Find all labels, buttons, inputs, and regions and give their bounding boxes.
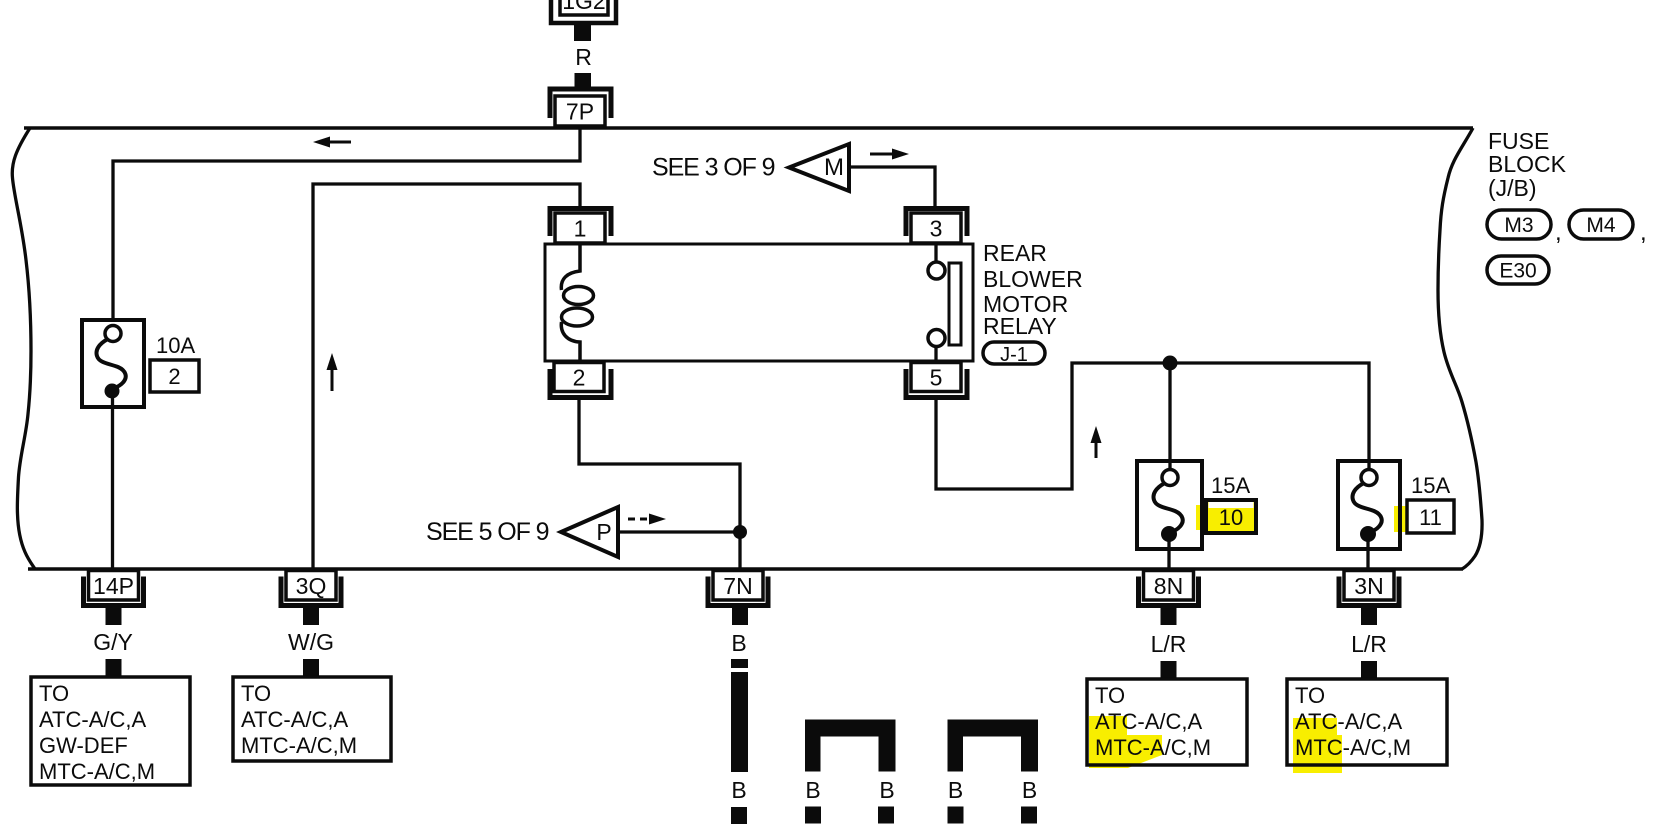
wire stub below 3Q (303, 608, 319, 625)
svg-text:B: B (1022, 777, 1037, 803)
svg-text:REAR: REAR (983, 240, 1047, 266)
wire stub below 3N (1361, 608, 1377, 625)
relay pin 2 bracket (550, 369, 611, 398)
wire color label R (575, 44, 592, 70)
ground label B (7N leg) (731, 777, 746, 803)
svg-text:TO: TO (241, 681, 271, 706)
svg-text:3Q: 3Q (296, 573, 327, 599)
current arrow right near M (870, 149, 909, 160)
svg-text:M4: M4 (1586, 214, 1615, 237)
ground label B (strap2 right) (1022, 777, 1037, 803)
svg-text:MTC-A/C,M: MTC-A/C,M (1095, 735, 1211, 760)
svg-text:7P: 7P (566, 99, 594, 125)
svg-text:11: 11 (1419, 505, 1442, 530)
destination box TO ATC GW-DEF (31, 677, 190, 785)
svg-text:B: B (805, 777, 820, 803)
wire stub above left TO box (106, 659, 122, 677)
ground stub (strap1 left) (805, 807, 821, 824)
svg-text:E30: E30 (1499, 260, 1536, 283)
svg-text:3N: 3N (1354, 573, 1383, 599)
fuse 15A no.11 element (1352, 470, 1381, 543)
wire relay pin5 to fuses (936, 363, 1369, 489)
wire color label G/Y (93, 629, 133, 655)
svg-text:TO: TO (1095, 683, 1125, 708)
connector 7N box (713, 571, 763, 601)
svg-text:B: B (948, 777, 963, 803)
label SEE 5 OF 9 (426, 518, 549, 546)
svg-text:J-1: J-1 (1000, 344, 1028, 366)
relay pin 1 box (555, 213, 605, 243)
off-page triangle P (561, 507, 618, 557)
relay grid ref J-1 (983, 342, 1045, 366)
relay pin 3 box (911, 213, 961, 243)
fuse 15A no.10 element (1153, 470, 1182, 543)
destination box TO ATC MTC (3N) with highlights (1287, 679, 1447, 773)
svg-text:L/R: L/R (1351, 631, 1387, 657)
svg-text:ATC-A/C,A: ATC-A/C,A (241, 707, 348, 732)
svg-text:(J/B): (J/B) (1488, 175, 1537, 201)
ground strap 2 (948, 720, 1039, 772)
svg-text:RELAY: RELAY (983, 313, 1057, 339)
ground stub (7N leg) (731, 807, 747, 824)
connector 7P box (555, 96, 605, 126)
svg-text:MTC-A/C,M: MTC-A/C,M (1295, 735, 1411, 760)
ground stub (strap2 right) (1021, 807, 1037, 824)
wire from 7P down into fuse block (113, 126, 580, 327)
svg-text:MTC-A/C,M: MTC-A/C,M (39, 759, 155, 784)
svg-text:R: R (575, 44, 592, 70)
destination box TO ATC MTC (8N) with highlights (1087, 679, 1247, 768)
svg-text:M: M (824, 154, 844, 181)
connector 7P bracket (550, 89, 611, 118)
wire junction to fuse 10 (1168, 363, 1171, 471)
svg-text:TO: TO (39, 681, 69, 706)
connector ref oval E30 (1487, 256, 1549, 284)
svg-text:B: B (731, 630, 746, 656)
fuse 15A no.11 box (1338, 461, 1408, 549)
wire stub above 3N TO box (1361, 661, 1377, 678)
connector 14P bracket (84, 577, 144, 606)
svg-text:GW-DEF: GW-DEF (39, 733, 128, 758)
wire fuse 10 to 8N (1167, 540, 1170, 569)
svg-text:1G2: 1G2 (562, 0, 605, 14)
svg-text:M3: M3 (1504, 214, 1533, 237)
destination box TO ATC MTC (3Q) (233, 677, 391, 761)
svg-text:L/R: L/R (1151, 631, 1187, 657)
highlighted fuse number box 10 (1206, 500, 1256, 533)
wire stub to 7P (575, 73, 592, 88)
relay pin 5 box (911, 363, 961, 392)
wire fuse 2 to 14P (111, 396, 114, 569)
svg-text:15A: 15A (1411, 473, 1450, 498)
connector 8N bracket (1139, 577, 1199, 606)
wire fuse 11 to 3N (1366, 540, 1369, 569)
off-page triangle M (789, 144, 849, 191)
connector 3Q bracket (281, 577, 341, 606)
fuse number box 11 with highlight mark (1407, 500, 1454, 533)
svg-text:B: B (731, 777, 746, 803)
wire color label L/R (8N) (1151, 631, 1187, 657)
fuse block band top edge (24, 126, 1473, 130)
relay pin 5 bracket (906, 369, 967, 398)
svg-text:7N: 7N (723, 573, 752, 599)
svg-text:ATC-A/C,A: ATC-A/C,A (1095, 709, 1202, 734)
connector 3N box (1344, 571, 1394, 601)
connector 3N bracket (1339, 577, 1399, 606)
fuse block band left torn edge (12, 128, 35, 569)
comma after M4 (1640, 219, 1647, 246)
connector 7N bracket (708, 577, 768, 606)
svg-text:G/Y: G/Y (93, 629, 133, 655)
current arrow pointing left (313, 137, 351, 148)
svg-text:15A: 15A (1211, 473, 1250, 498)
svg-text:MTC-A/C,M: MTC-A/C,M (241, 733, 357, 758)
svg-text:3: 3 (930, 216, 943, 242)
connector ref oval M3 (1487, 210, 1551, 239)
relay U1 body (545, 244, 973, 361)
comma after M3 (1555, 219, 1562, 246)
wire P triangle to junction (618, 530, 740, 533)
current arrow up on 3Q wire (327, 353, 338, 391)
relay pin 1 bracket (550, 209, 611, 237)
svg-text:SEE 3 OF 9: SEE 3 OF 9 (652, 154, 775, 182)
wire color label B (731, 630, 746, 656)
fuse block name label (1488, 128, 1567, 201)
fuse 15A no.10 box (1137, 461, 1212, 549)
connector 1G2 inner box (560, 0, 608, 15)
svg-text:5: 5 (930, 365, 943, 391)
relay contact (928, 244, 961, 361)
fuse 10A element (96, 326, 125, 399)
svg-text:10A: 10A (156, 333, 195, 358)
fuse block band bottom edge (28, 567, 1463, 571)
wire relay pin1 to 3Q branch (313, 184, 580, 569)
wire stub below 8N (1161, 608, 1177, 625)
svg-text:BLOWER: BLOWER (983, 266, 1083, 292)
ground label B (strap1 left) (805, 777, 820, 803)
svg-text:2: 2 (168, 364, 180, 389)
fuse block band right torn edge (1438, 128, 1482, 569)
wire stub below 7N (732, 608, 748, 625)
wire stub from 1G2 (574, 23, 591, 41)
wire relay pin2 to 7N (579, 398, 740, 569)
current arrow right near P (628, 514, 666, 525)
svg-text:TO: TO (1295, 683, 1325, 708)
relay pin 3 bracket (906, 209, 967, 237)
svg-text:,: , (1640, 219, 1647, 246)
wire stub above 8N TO box (1161, 661, 1177, 678)
svg-text:14P: 14P (93, 573, 134, 599)
fuse rating label 15A (fuse 10) (1211, 473, 1250, 498)
relay coil (561, 244, 593, 361)
svg-text:1: 1 (574, 216, 587, 242)
wire stub below 14P (106, 608, 122, 625)
connector 1G2 outer box (551, 0, 616, 23)
thick ground wire B from 7N (731, 659, 748, 772)
svg-text:ATC-A/C,A: ATC-A/C,A (39, 707, 146, 732)
connector ref oval M4 (1569, 210, 1633, 239)
ground stub (strap1 right) (878, 807, 894, 824)
ground label B (strap1 right) (879, 777, 894, 803)
ground stub (strap2 left) (948, 807, 964, 824)
relay pin 2 box (554, 363, 604, 392)
svg-text:8N: 8N (1154, 573, 1183, 599)
junction node at 7N wire (733, 525, 747, 539)
connector 8N box (1144, 571, 1194, 601)
svg-text:W/G: W/G (288, 629, 334, 655)
ground strap 1 (805, 720, 896, 772)
svg-text:B: B (879, 777, 894, 803)
fuse rating label 15A (fuse 11) (1411, 473, 1450, 498)
wire color label L/R (3N) (1351, 631, 1387, 657)
fuse number box 2 (150, 360, 199, 392)
relay name label (983, 240, 1083, 339)
svg-text:P: P (596, 519, 611, 545)
connector 3Q box (286, 571, 336, 601)
current arrow up near fuse 10 (1091, 426, 1102, 458)
svg-text:,: , (1555, 219, 1562, 246)
junction node above fuse 10 (1163, 356, 1178, 371)
svg-text:BLOCK: BLOCK (1488, 151, 1567, 177)
svg-text:2: 2 (573, 365, 586, 391)
connector 14P box (89, 571, 139, 601)
fuse 10A box (82, 320, 144, 407)
ground label B (strap2 left) (948, 777, 963, 803)
wire color label W/G (288, 629, 334, 655)
wire M triangle to relay pin3 (849, 167, 935, 207)
svg-text:SEE 5 OF 9: SEE 5 OF 9 (426, 518, 549, 546)
wire stub above 3Q TO box (303, 659, 319, 677)
fuse rating label 10A (156, 333, 195, 358)
label SEE 3 OF 9 (652, 154, 775, 182)
svg-text:10: 10 (1219, 505, 1243, 530)
svg-text:ATC-A/C,A: ATC-A/C,A (1295, 709, 1402, 734)
